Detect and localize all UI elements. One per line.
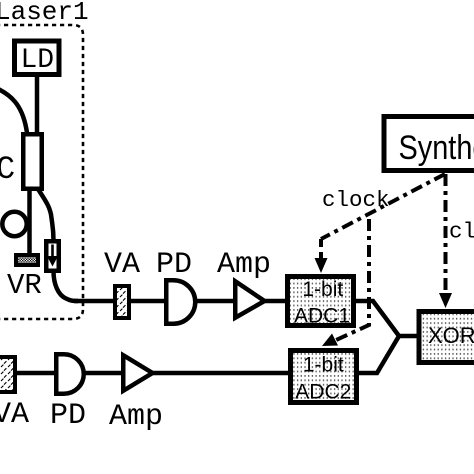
attenuator VA (row 1) <box>115 286 129 318</box>
svg-text:VA: VA <box>104 248 140 282</box>
dashed enclosure Laser1 <box>0 25 83 319</box>
photodiode PD (row 2) <box>56 354 84 394</box>
wire: coupler lower-left vertical fiber to VR <box>27 188 32 255</box>
clock line: vertical dash-dot to ADC2 with elbow and arrowhead <box>334 219 369 341</box>
svg-text:VR: VR <box>7 269 42 302</box>
svg-text:Amp: Amp <box>109 400 163 434</box>
clock line: diagonal dash-dot from Synthesizer to ADC1 drop <box>321 174 445 239</box>
XOR gate box <box>419 312 474 363</box>
svg-text:LD: LD <box>21 45 55 76</box>
fiber loop (polarization controller) circle <box>2 212 26 236</box>
clock line: dashed drop into ADC1 with arrowhead <box>319 239 323 260</box>
wire: coupler lower-right fiber to isolator <box>38 189 54 241</box>
laser diode LD <box>15 41 60 75</box>
amplifier Amp (row 2) <box>123 355 152 391</box>
svg-text:ADC2: ADC2 <box>295 381 351 404</box>
coupler C box <box>23 134 42 189</box>
wire: ADC2 output to XOR convergence <box>359 336 399 373</box>
wire: laser cavity fiber loop entering from left edge to coupler <box>0 87 27 133</box>
wire: row2 horizontal line <box>15 371 290 376</box>
svg-text:Laser1: Laser1 <box>0 0 89 27</box>
clock line: vertical dash-dot from Synthesizer to XOR with arrowhead <box>444 174 448 294</box>
svg-text:C: C <box>0 151 15 188</box>
attenuator VA (row 2) <box>0 357 15 392</box>
1-bit ADC1 <box>288 277 354 326</box>
svg-text:PD: PD <box>156 248 192 282</box>
svg-text:Synthesizer: Synthesizer <box>399 128 474 167</box>
svg-text:PD: PD <box>50 399 86 433</box>
svg-text:1-bit: 1-bit <box>302 278 343 301</box>
svg-text:clock: clock <box>322 187 390 213</box>
Synthesizer box <box>384 117 474 171</box>
svg-text:Amp: Amp <box>217 248 271 282</box>
svg-text:clock: clock <box>449 219 474 245</box>
wire: ADC1 output to XOR convergence <box>356 301 417 336</box>
wire: isolator output fiber curving to horizontal line <box>54 271 79 301</box>
variable reflector VR <box>16 255 38 265</box>
svg-text:XOR: XOR <box>428 323 474 348</box>
wire: LD to coupler vertical fiber <box>35 75 40 136</box>
1-bit ADC2 <box>291 351 357 403</box>
svg-text:ADC1: ADC1 <box>294 305 350 328</box>
photodiode PD (row 1) <box>166 280 195 324</box>
isolator (box with down arrow) <box>46 241 59 271</box>
wire: row1 horizontal line from laser output to ADC1 <box>74 299 287 304</box>
amplifier Amp (row 1) <box>235 281 264 318</box>
svg-text:1-bit: 1-bit <box>303 354 344 377</box>
svg-text:VA: VA <box>0 398 29 432</box>
